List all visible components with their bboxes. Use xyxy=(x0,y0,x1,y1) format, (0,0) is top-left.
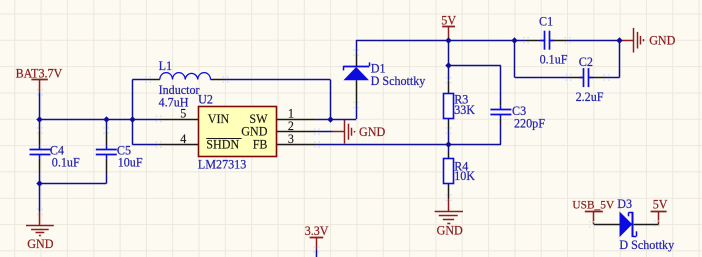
svg-text:10K: 10K xyxy=(454,169,475,183)
svg-text:3.3V: 3.3V xyxy=(305,224,329,238)
svg-text:C1: C1 xyxy=(539,15,553,29)
svg-text:0.1uF: 0.1uF xyxy=(540,52,568,66)
svg-text:3: 3 xyxy=(288,132,294,146)
svg-text:FB: FB xyxy=(253,138,268,152)
svg-text:VIN: VIN xyxy=(208,112,230,126)
svg-text:GND: GND xyxy=(27,237,53,251)
svg-text:L1: L1 xyxy=(159,59,172,73)
svg-text:2.2uF: 2.2uF xyxy=(576,90,604,104)
svg-text:U2: U2 xyxy=(198,93,213,107)
svg-text:10uF: 10uF xyxy=(118,156,143,170)
svg-text:2: 2 xyxy=(288,119,294,133)
svg-text:BAT3.7V: BAT3.7V xyxy=(16,66,63,80)
svg-text:33K: 33K xyxy=(454,103,475,117)
svg-text:5V: 5V xyxy=(441,13,456,27)
svg-text:SHDN: SHDN xyxy=(206,138,239,152)
svg-text:USB_5V: USB_5V xyxy=(572,199,615,211)
svg-text:GND: GND xyxy=(359,125,385,139)
svg-text:0.1uF: 0.1uF xyxy=(52,155,80,169)
svg-text:GND: GND xyxy=(241,125,267,139)
svg-text:5V: 5V xyxy=(653,197,668,211)
svg-text:D3: D3 xyxy=(617,197,632,211)
svg-text:GND: GND xyxy=(649,33,675,47)
svg-text:220pF: 220pF xyxy=(514,116,545,130)
svg-text:GND: GND xyxy=(437,224,463,238)
svg-text:LM27313: LM27313 xyxy=(198,157,246,171)
svg-text:C2: C2 xyxy=(579,55,593,69)
svg-text:4: 4 xyxy=(180,132,186,146)
svg-text:5: 5 xyxy=(180,107,186,121)
svg-text:D Schottky: D Schottky xyxy=(619,238,674,252)
svg-text:D Schottky: D Schottky xyxy=(371,74,426,88)
